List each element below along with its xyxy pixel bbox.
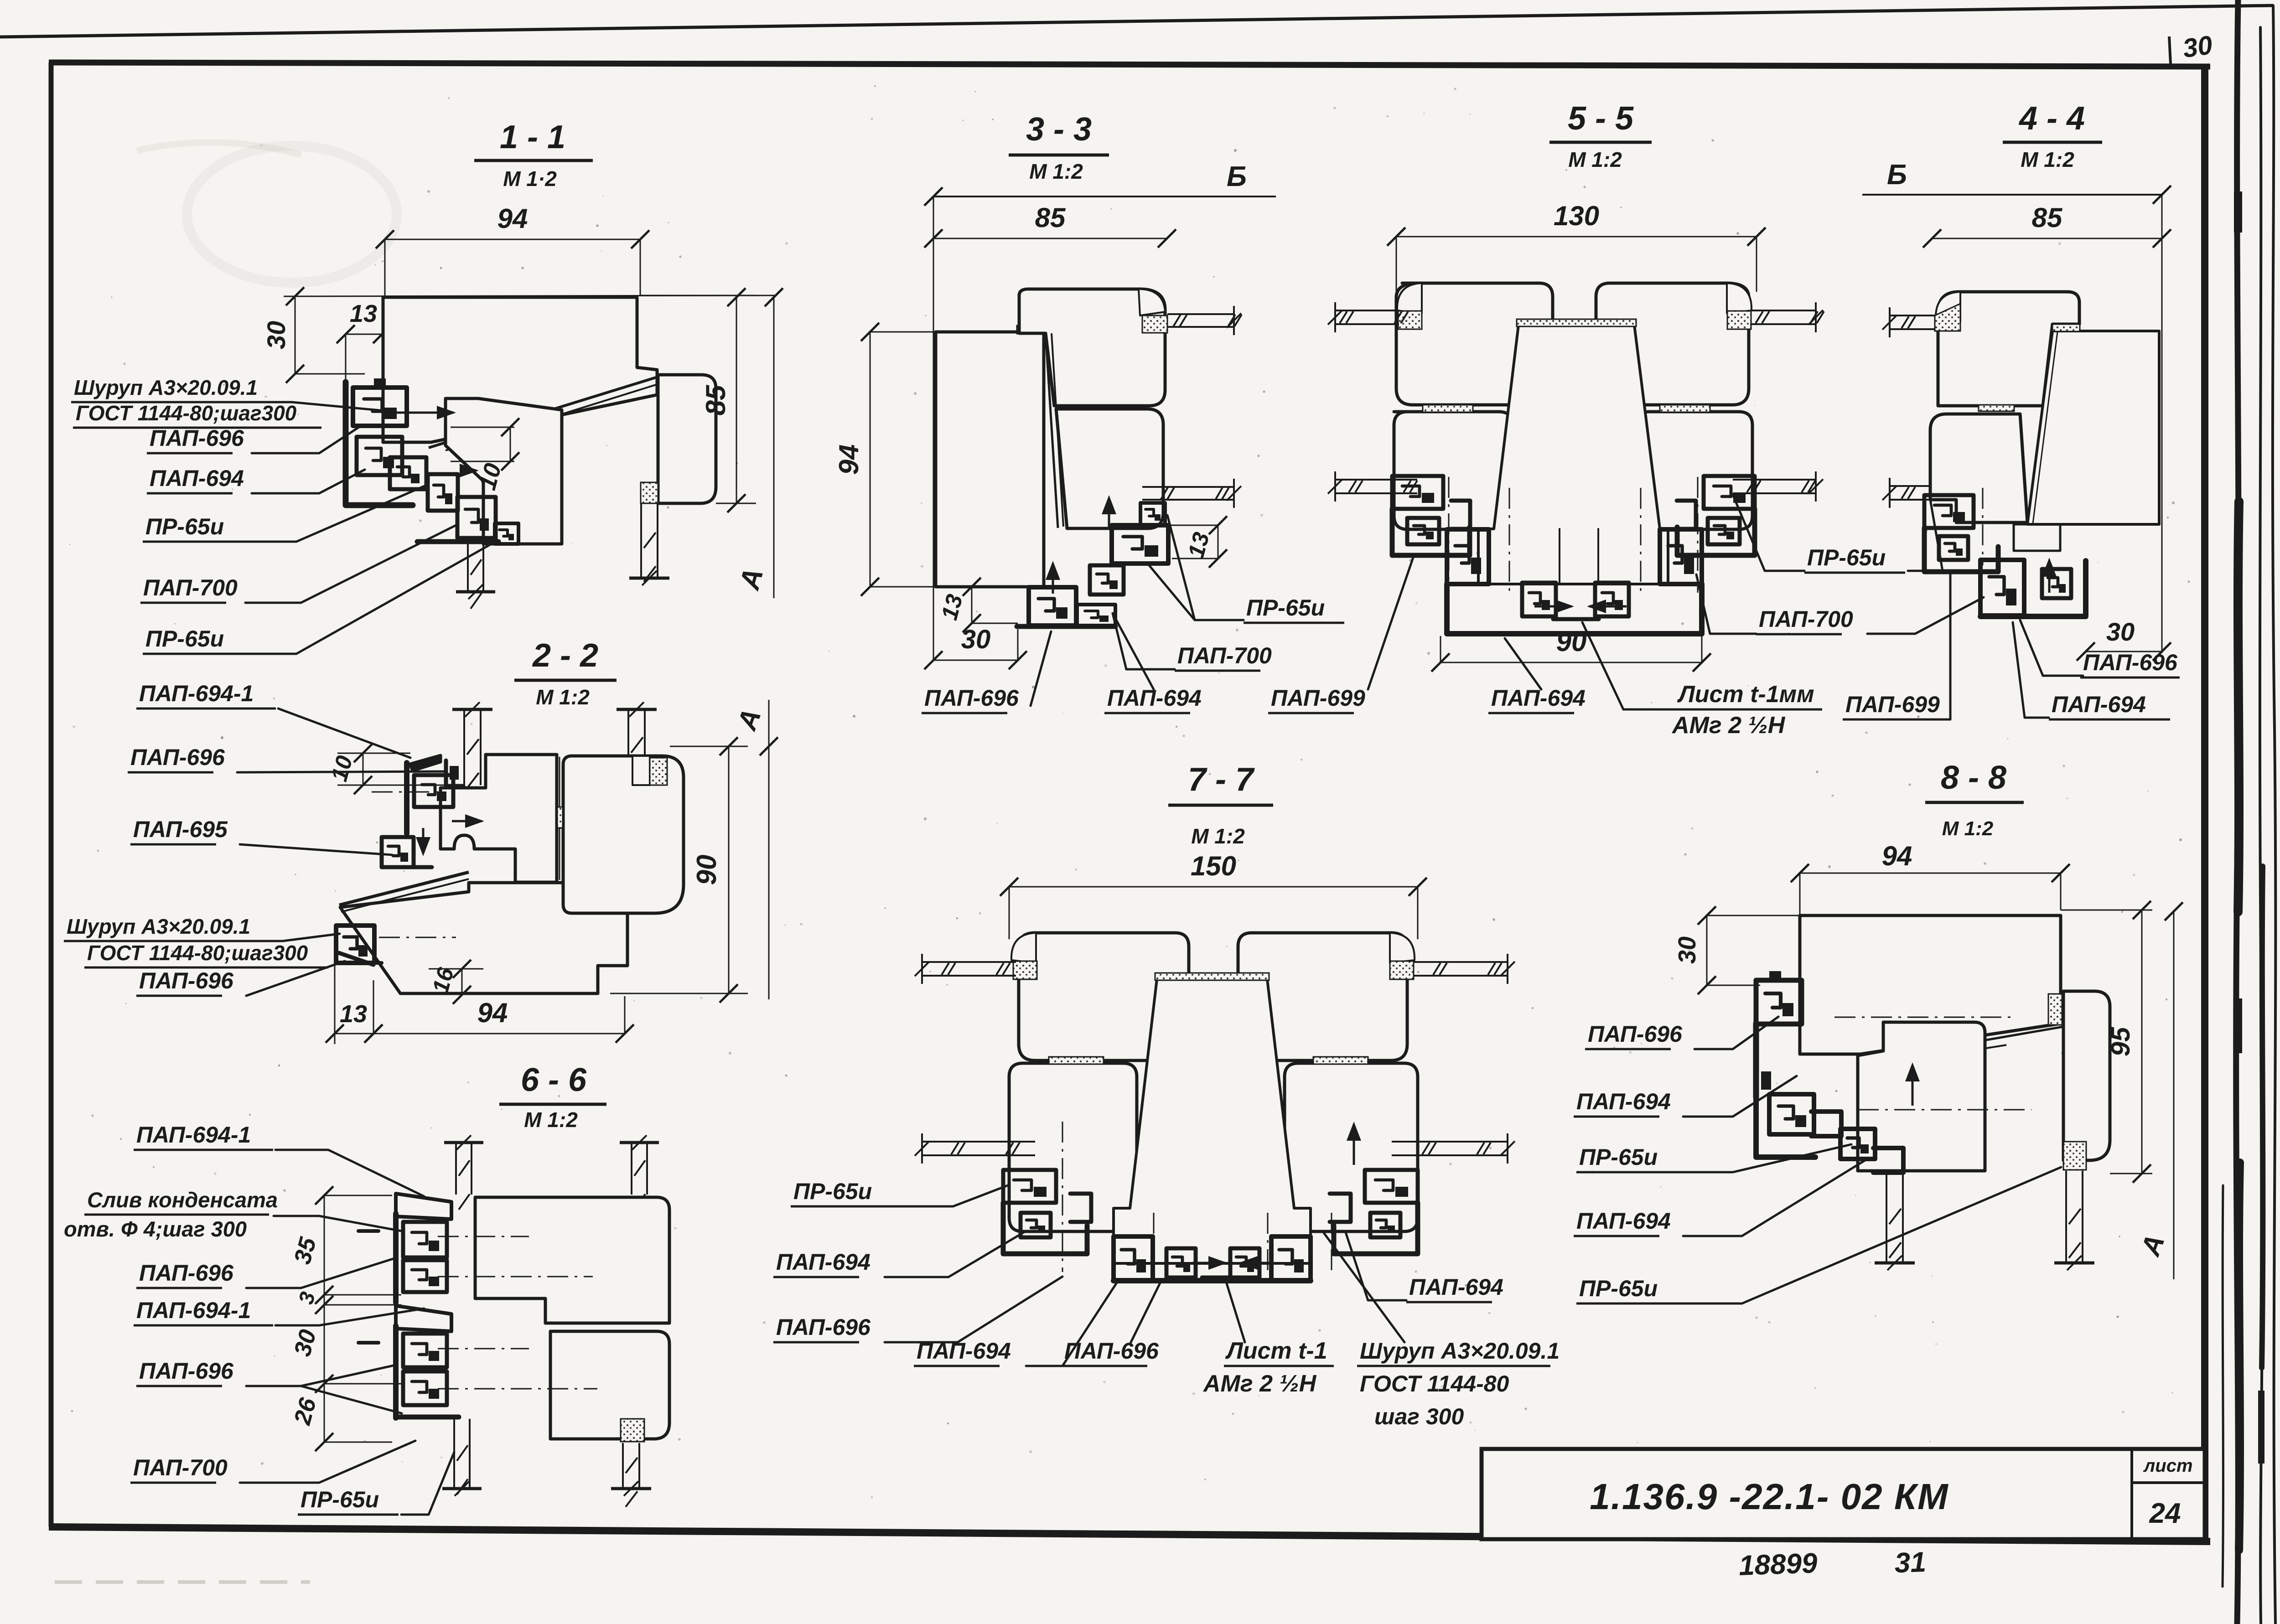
section 8-8 dim 30 left bbox=[1707, 915, 1800, 916]
section 3-3 glass pane upper right bbox=[1167, 313, 1234, 315]
svg-text:94: 94 bbox=[1882, 841, 1912, 871]
svg-text:М 1·2: М 1·2 bbox=[503, 167, 557, 191]
svg-text:Шуруп А3×20.09.1: Шуруп А3×20.09.1 bbox=[67, 915, 250, 938]
svg-text:М 1:2: М 1:2 bbox=[2021, 148, 2074, 171]
svg-text:30: 30 bbox=[2106, 617, 2135, 646]
section 4-4 aluminium cluster left bbox=[1924, 495, 1974, 528]
section 1-1 dim 94 bbox=[385, 239, 640, 240]
svg-text:ГОСТ 1144-80;шаг300: ГОСТ 1144-80;шаг300 bbox=[87, 941, 308, 965]
svg-text:Слив конденсата: Слив конденсата bbox=[87, 1188, 278, 1212]
section 1-1 wood frame head block bbox=[383, 297, 657, 442]
svg-text:31: 31 bbox=[1894, 1546, 1927, 1579]
section 6-6 centre dash-dot lines bbox=[438, 1236, 529, 1237]
section 1-1 dim line А right bbox=[773, 295, 775, 598]
svg-text:ПАП-700: ПАП-700 bbox=[1759, 606, 1853, 632]
svg-text:лист: лист bbox=[2143, 1456, 2192, 1476]
section 1-1 aluminium profile ПАП-694/ПР-65и cluster centre bbox=[390, 457, 426, 489]
svg-text:ПАП-694: ПАП-694 bbox=[917, 1338, 1011, 1364]
section 7-7 wood block lower right bbox=[1285, 1063, 1418, 1231]
section 6-6 glass pane lower right bbox=[622, 1443, 624, 1489]
section 7-7 wood sash upper left bbox=[1019, 933, 1189, 1060]
section 8-8 wood sash middle bbox=[1858, 1022, 1985, 1171]
section 6-6 sealant wedge lower bbox=[621, 1419, 644, 1442]
svg-text:1 - 1: 1 - 1 bbox=[500, 119, 565, 155]
svg-text:7 - 7: 7 - 7 bbox=[1188, 761, 1255, 798]
section 6-6 glass pane upper right bbox=[631, 1143, 632, 1195]
section 5-5 glass pane top left bbox=[1335, 310, 1399, 311]
section 1-1 sash visor diagonal bbox=[429, 378, 656, 448]
section 4-4 up arrow bbox=[2048, 562, 2051, 593]
svg-text:М 1:2: М 1:2 bbox=[1942, 817, 1994, 840]
section 3-3 dim 94 bbox=[870, 331, 936, 333]
drawing frame border bbox=[49, 62, 2210, 67]
svg-text:Шуруп А3×20.09.1: Шуруп А3×20.09.1 bbox=[74, 376, 258, 399]
section 5-5 glass pane mid left bbox=[1335, 479, 1417, 481]
svg-text:М 1:2: М 1:2 bbox=[1191, 824, 1245, 848]
section 1-1 aluminium profile ПАП-696 cluster left bbox=[346, 382, 413, 505]
section 7-7 glass pane top right bbox=[1414, 961, 1508, 963]
section 4-4 datum line Б bbox=[1862, 194, 2162, 196]
section 3-3 dim 13 right bbox=[1167, 525, 1218, 526]
section 5-5 mullion top sealant bbox=[1517, 319, 1636, 326]
svg-text:30: 30 bbox=[2181, 30, 2214, 63]
section 3-3 dim 30 bbox=[933, 660, 1018, 661]
svg-text:ПАП-694-1: ПАП-694-1 bbox=[136, 1122, 251, 1148]
svg-text:ПАП-696: ПАП-696 bbox=[2083, 650, 2178, 675]
section 7-7 dim 150 bbox=[1009, 886, 1418, 888]
section 8-8 aluminium cluster ПАП-696 top bbox=[1756, 980, 1802, 1024]
section 4-4 sealant strip between blocks bbox=[1979, 405, 2014, 411]
section 3-3 dim 85 bbox=[933, 238, 1167, 239]
section 7-7 wood block lower left bbox=[1009, 1063, 1137, 1231]
section 2-2 glass pane upper right bbox=[627, 709, 629, 781]
svg-text:ПАП-700: ПАП-700 bbox=[143, 575, 238, 600]
section 5-5 wood block lower left bbox=[1394, 412, 1513, 529]
svg-text:Лист t-1мм: Лист t-1мм bbox=[1677, 681, 1814, 708]
section 3-3 up arrow frame bbox=[1052, 565, 1054, 594]
section 4-4 mullion slant inner line bbox=[2033, 332, 2057, 523]
section 4-4 dim 85 bbox=[1932, 238, 2162, 239]
section 7-7 wood sash upper right bbox=[1238, 933, 1407, 1060]
section 3-3 wood frame jamb block bbox=[936, 332, 1044, 587]
svg-text:АМг 2 ½Н: АМг 2 ½Н bbox=[1202, 1371, 1317, 1397]
section 6-6 glass pane lower left bbox=[453, 1419, 455, 1489]
svg-text:ПАП-696: ПАП-696 bbox=[150, 425, 244, 451]
section 7-7 mullion trapezoid bbox=[1114, 979, 1311, 1263]
title block frame bbox=[1482, 1449, 2205, 1539]
section 4-4 mullion bbox=[2027, 331, 2159, 524]
section 4-4 wood block lower bbox=[1930, 414, 2027, 522]
svg-text:4 - 4: 4 - 4 bbox=[2018, 100, 2085, 137]
svg-text:ПР-65и: ПР-65и bbox=[1579, 1276, 1658, 1301]
svg-text:ПАП-696: ПАП-696 bbox=[130, 745, 225, 770]
section 2-2 dim line А right bbox=[768, 700, 770, 999]
section 7-7 aluminium bottom assembly bbox=[1114, 1236, 1153, 1280]
svg-text:ПАП-696: ПАП-696 bbox=[924, 685, 1019, 711]
section 4-4 sealant wedge upper left bbox=[1935, 304, 1960, 331]
section 2-2 wood block lower bbox=[340, 883, 627, 993]
svg-text:М 1:2: М 1:2 bbox=[536, 685, 590, 709]
svg-text:94: 94 bbox=[834, 445, 864, 475]
svg-text:Б: Б bbox=[1227, 161, 1247, 192]
svg-text:94: 94 bbox=[477, 998, 508, 1028]
section 5-5 glass pane top right bbox=[1750, 310, 1816, 311]
svg-text:ПАП-694-1: ПАП-694-1 bbox=[136, 1298, 251, 1323]
section 8-8 glass pane below right bbox=[2065, 1171, 2067, 1263]
svg-text:М 1:2: М 1:2 bbox=[1029, 160, 1083, 183]
section 7-7 sealant wedge upper left bbox=[1013, 961, 1037, 979]
svg-text:М 1:2: М 1:2 bbox=[524, 1108, 578, 1132]
svg-text:ПАП-699: ПАП-699 bbox=[1271, 685, 1365, 711]
svg-text:90: 90 bbox=[691, 855, 722, 885]
section 4-4 wood sash bottom step bbox=[2014, 524, 2060, 551]
section 1-1 top extension line bbox=[284, 295, 775, 296]
svg-text:Б: Б bbox=[1887, 159, 1907, 191]
section 1-1 screw arrow bbox=[395, 412, 454, 414]
svg-text:отв. Ф 4;шаг 300: отв. Ф 4;шаг 300 bbox=[64, 1217, 247, 1241]
svg-text:ПАП-700: ПАП-700 bbox=[133, 1455, 228, 1480]
svg-text:ПАП-694: ПАП-694 bbox=[150, 465, 244, 491]
section 1-1 right wood transom block bbox=[658, 375, 716, 503]
section 7-7 glass pane mid right bbox=[1392, 1141, 1508, 1143]
section 5-5 small arrows bottom bbox=[1534, 605, 1572, 608]
svg-text:ПАП-696: ПАП-696 bbox=[139, 1260, 234, 1286]
svg-text:шаг 300: шаг 300 bbox=[1374, 1404, 1464, 1429]
svg-text:ПАП-696: ПАП-696 bbox=[776, 1314, 871, 1340]
section 5-5 sealant strips between blocks bbox=[1423, 405, 1473, 412]
section 4-4 glass pane top left bbox=[1890, 315, 1935, 316]
section 2-2 sash visor diagonal bbox=[339, 872, 469, 905]
svg-text:24: 24 bbox=[2149, 1498, 2181, 1529]
section 3-3 up arrow sash bbox=[1108, 500, 1110, 529]
binding scan artifact lines right edge bbox=[2236, 0, 2239, 1624]
section 7-7 aluminium cluster right bbox=[1365, 1170, 1418, 1203]
svg-text:ГОСТ 1144-80;шаг300: ГОСТ 1144-80;шаг300 bbox=[76, 401, 297, 425]
section 6-6 aluminium stack lower bbox=[396, 1306, 451, 1331]
svg-text:ПР-65и: ПР-65и bbox=[145, 626, 224, 652]
section 6-6 wood block upper bbox=[475, 1197, 669, 1323]
section 6-6 aluminium stack ПАП-694-1/696 upper bbox=[396, 1194, 451, 1219]
svg-text:ПАП-696: ПАП-696 bbox=[139, 1358, 234, 1384]
svg-text:ПАП-700: ПАП-700 bbox=[1177, 643, 1272, 668]
section 2-2 dash-dot lines bbox=[372, 791, 438, 793]
section 1-1 sealant wedge right bbox=[641, 482, 658, 503]
svg-text:3 - 3: 3 - 3 bbox=[1026, 111, 1092, 148]
section 5-5 dim 130 bbox=[1396, 236, 1757, 238]
section 8-8 centre dash-dot lines bbox=[1834, 1017, 2014, 1018]
section 4-4 aluminium bottom assembly bbox=[1980, 560, 2024, 615]
section 8-8 sealant wedge bottom right bbox=[2063, 1142, 2086, 1170]
svg-text:6 - 6: 6 - 6 bbox=[521, 1062, 587, 1098]
svg-text:ПР-65и: ПР-65и bbox=[301, 1487, 379, 1512]
section 3-3 datum line Б bbox=[933, 196, 1276, 197]
section 2-2 screw arrow bbox=[452, 820, 482, 822]
section 5-5 mullion trapezoid bbox=[1478, 325, 1668, 584]
section 6-6 glass pane upper left bbox=[455, 1143, 457, 1195]
section 8-8 dim 94 bbox=[1800, 873, 2061, 874]
section 7-7 ear upper left bbox=[1011, 933, 1036, 963]
section 2-2 dim 90 right bbox=[670, 746, 748, 747]
section 5-5 aluminium cluster left bbox=[1392, 476, 1443, 509]
svg-text:ПР-65и: ПР-65и bbox=[1807, 545, 1886, 570]
section 3-3 glass pane lower right bbox=[1142, 486, 1234, 488]
section 8-8 sash visor diagonal bbox=[1862, 1027, 2063, 1061]
svg-text:ПР-65и: ПР-65и bbox=[793, 1179, 872, 1204]
section 1-1 dim 30 bbox=[295, 296, 296, 374]
svg-text:30: 30 bbox=[961, 625, 991, 654]
svg-text:1.136.9 -22.1- 02 КМ: 1.136.9 -22.1- 02 КМ bbox=[1590, 1476, 1949, 1517]
section 4-4 dim 30 bbox=[2086, 651, 2162, 652]
svg-text:30: 30 bbox=[262, 321, 290, 349]
section 8-8 aluminium cluster ПАП-694 / ПР-65и bbox=[1769, 1094, 1814, 1134]
svg-text:АМг 2 ½Н: АМг 2 ½Н bbox=[1671, 712, 1786, 739]
section 3-3 sealant strip top bbox=[1017, 326, 1045, 334]
section 8-8 wood transom right bbox=[2063, 991, 2110, 1160]
section 3-3 aluminium cluster bottom ПАП-696 bbox=[1029, 587, 1076, 626]
section 7-7 centre dash-dot lines bbox=[1062, 1122, 1063, 1272]
section 5-5 aluminium bottom assembly bbox=[1447, 529, 1489, 584]
section 8-8 dim 95 right bbox=[2061, 910, 2152, 911]
section 5-5 wood block lower right bbox=[1636, 412, 1752, 529]
svg-text:95: 95 bbox=[2106, 1027, 2135, 1056]
faint stamp smudge top left bbox=[187, 146, 397, 283]
svg-text:ПАП-696: ПАП-696 bbox=[1588, 1021, 1683, 1047]
section 4-4 right extension line bbox=[2161, 195, 2163, 653]
section 7-7 sealant wedge upper right bbox=[1390, 961, 1414, 979]
svg-text:ПАП-696: ПАП-696 bbox=[1064, 1338, 1159, 1364]
section 2-2 dim 16 bbox=[461, 969, 463, 995]
section 3-3 wood sash lower block bbox=[1056, 409, 1163, 528]
section 5-5 sealant wedge upper left bbox=[1398, 311, 1422, 329]
svg-text:ПАП-695: ПАП-695 bbox=[133, 817, 228, 842]
section 8-8 sealant at block right end bbox=[2048, 994, 2062, 1025]
section 2-2 aluminium top ПАП-694-1 sloped bbox=[410, 755, 440, 771]
svg-text:85: 85 bbox=[1035, 202, 1066, 233]
svg-text:13: 13 bbox=[350, 300, 377, 327]
section 5-5 wood sash upper left bbox=[1396, 283, 1553, 405]
svg-text:ПАП-694-1: ПАП-694-1 bbox=[139, 681, 254, 706]
section 2-2 dim 13 and 94 bottom bbox=[334, 962, 336, 1044]
svg-text:ПАП-694: ПАП-694 bbox=[1576, 1208, 1671, 1234]
section 2-2 frame gap line bbox=[559, 757, 560, 880]
svg-text:Лист t-1: Лист t-1 bbox=[1225, 1338, 1327, 1364]
section 2-2 aluminium sill cluster bbox=[336, 926, 374, 963]
section 7-7 aluminium cluster left bbox=[1003, 1170, 1056, 1203]
svg-text:90: 90 bbox=[1556, 626, 1587, 657]
section 7-7 glass pane top left bbox=[922, 961, 1016, 963]
section 2-2 wood head block centre bbox=[440, 755, 557, 882]
section 7-7 up arrow right bbox=[1353, 1126, 1355, 1165]
svg-text:94: 94 bbox=[497, 203, 528, 234]
svg-text:8 - 8: 8 - 8 bbox=[1941, 760, 2006, 796]
svg-text:Шуруп А3×20.09.1: Шуруп А3×20.09.1 bbox=[1360, 1338, 1560, 1364]
section 5-5 centre dash-dot lines bbox=[1448, 477, 1450, 593]
svg-text:ПАП-694: ПАП-694 bbox=[2052, 692, 2146, 717]
section 2-2 dim 10 bbox=[363, 753, 364, 785]
section 2-2 down arrow bbox=[422, 828, 425, 852]
section 4-4 glass pane mid left bbox=[1890, 485, 1930, 487]
section 5-5 wood sash upper right bbox=[1596, 283, 1749, 405]
section 8-8 glass pane below middle bbox=[1886, 1171, 1887, 1263]
section 4-4 mullion top sealant bbox=[2052, 324, 2080, 331]
section 8-8 dim line А right bbox=[2173, 910, 2175, 1279]
section 8-8 up arrow bbox=[1912, 1067, 1914, 1106]
section 3-3 wood sash upper block bbox=[1019, 289, 1165, 406]
svg-text:ГОСТ 1144-80: ГОСТ 1144-80 bbox=[1360, 1371, 1509, 1396]
section 2-2 wood block right rounded bbox=[563, 756, 684, 913]
section 3-3 sash ear detail bbox=[1139, 289, 1165, 315]
section 7-7 mullion top sealant bbox=[1155, 973, 1269, 980]
svg-text:ПАП-694: ПАП-694 bbox=[1576, 1089, 1671, 1114]
paper right edge line bbox=[2273, 5, 2275, 1624]
section 2-2 glazing pocket right bbox=[632, 756, 650, 785]
section 4-4 centre dash-dot line bbox=[1982, 488, 1984, 565]
svg-text:ПАП-694: ПАП-694 bbox=[1491, 685, 1586, 711]
svg-text:ПР-65и: ПР-65и bbox=[145, 514, 224, 539]
section 5-5 ear upper left bbox=[1397, 283, 1422, 313]
svg-text:2 - 2: 2 - 2 bbox=[532, 637, 598, 674]
section 3-3 left extension line bbox=[933, 197, 934, 661]
section 5-5 glass pane mid right bbox=[1733, 479, 1816, 481]
svg-text:ПР-65и: ПР-65и bbox=[1246, 595, 1325, 621]
svg-text:5 - 5: 5 - 5 bbox=[1568, 100, 1634, 137]
svg-text:ПАП-696: ПАП-696 bbox=[139, 968, 234, 993]
section 3-3 aluminium cluster mid ПР-65и bbox=[1140, 503, 1165, 525]
section 4-4 wood sash upper bbox=[1938, 292, 2079, 406]
section 8-8 wood frame head block bbox=[1800, 915, 2061, 1054]
section 3-3 sealant wedge under ear bbox=[1142, 315, 1167, 333]
svg-text:ПАП-699: ПАП-699 bbox=[1845, 692, 1940, 717]
section 7-7 small arrows bottom bbox=[1192, 1262, 1225, 1264]
svg-text:М 1:2: М 1:2 bbox=[1568, 148, 1622, 171]
section 1-1 small arrow centre bbox=[461, 470, 477, 472]
svg-text:150: 150 bbox=[1191, 851, 1236, 881]
section 2-2 glass pane upper left bbox=[463, 709, 465, 785]
section 3-3 dim 13 left bbox=[971, 587, 973, 623]
section 2-2 aluminium ПАП-695 cluster bbox=[382, 837, 414, 867]
section 1-1 wood sash block bbox=[446, 398, 562, 544]
section 5-5 mullion inner steps bbox=[1560, 529, 1598, 584]
svg-text:85: 85 bbox=[2032, 202, 2063, 233]
section 2-2 sealant wedge right pocket bbox=[650, 758, 667, 785]
svg-text:ПАП-694: ПАП-694 bbox=[776, 1249, 871, 1275]
section 6-6 dim chain 35/3/30/26 bbox=[324, 1195, 325, 1442]
svg-text:ПР-65и: ПР-65и bbox=[1579, 1144, 1658, 1170]
section 7-7 glass pane mid left bbox=[922, 1141, 1035, 1143]
paper top edge line bbox=[0, 5, 2273, 37]
section 1-1 dim 10 bbox=[451, 427, 514, 428]
svg-text:30: 30 bbox=[1674, 936, 1701, 964]
section 1-1 glass pane below right block bbox=[640, 503, 642, 578]
svg-text:85: 85 bbox=[700, 384, 731, 415]
section 5-5 ear upper right bbox=[1727, 283, 1751, 313]
svg-text:ПАП-694: ПАП-694 bbox=[1409, 1274, 1503, 1300]
section 5-5 dim 90 bbox=[1441, 662, 1702, 663]
section 1-1 glass pane below sash bbox=[467, 543, 469, 592]
section 7-7 sealant strips between bbox=[1049, 1057, 1104, 1064]
section 4-4 ear upper left bbox=[1936, 292, 1960, 322]
section 5-5 sealant wedge upper right bbox=[1727, 311, 1751, 329]
section 6-6 wood block lower bbox=[550, 1331, 669, 1439]
section 1-1 dim 13 bbox=[346, 334, 382, 335]
svg-text:13: 13 bbox=[340, 1000, 367, 1028]
svg-text:130: 130 bbox=[1554, 201, 1599, 231]
section 5-5 aluminium cluster right bbox=[1704, 476, 1755, 509]
section 7-7 ear upper right bbox=[1390, 933, 1415, 963]
section 1-1 dim 85 right bbox=[640, 295, 756, 296]
section 3-3 sash slant edge bbox=[1046, 333, 1058, 528]
svg-text:18899: 18899 bbox=[1738, 1547, 1818, 1582]
